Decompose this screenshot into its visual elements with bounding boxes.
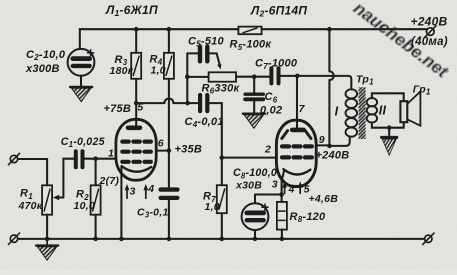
label R8 — [290, 211, 327, 224]
tube L1 grids dashed — [122, 142, 151, 162]
capacitor C3 — [161, 190, 178, 198]
wire ground stem speaker — [388, 128, 390, 137]
label pin 2 L2 — [264, 144, 271, 156]
label C6 — [260, 91, 282, 116]
wire C7 right to plate node L2 — [281, 75, 298, 77]
node rail R1/ground — [45, 237, 50, 242]
label pin 3 L2 — [272, 179, 278, 191]
node R6 left tap — [185, 75, 190, 80]
wire R8 top lead — [281, 195, 283, 202]
label C3 — [137, 206, 169, 219]
heater pin 4 arrow L2 — [282, 181, 287, 193]
wire top supply rail left section — [80, 29, 239, 49]
label R5 — [230, 39, 273, 52]
wire secondary bottom to speaker — [372, 122, 404, 128]
wire pin 6 screen lead L1 — [156, 150, 169, 152]
node rail C3 — [167, 237, 172, 242]
terminal bottom right — [423, 233, 434, 244]
node rail-R3 — [134, 27, 139, 32]
ground under C6 — [243, 114, 265, 129]
label pin 1 L1 — [108, 147, 114, 159]
label +4.6V — [309, 193, 339, 205]
resistor R7 — [217, 185, 227, 213]
label R1 — [18, 188, 43, 212]
label winding II — [379, 104, 387, 118]
label pin 4 L2 — [288, 183, 295, 195]
label pin 6 L1 — [158, 137, 164, 149]
wire R7 top lead — [221, 158, 223, 186]
wire screen L2 vertical with hop — [329, 29, 333, 146]
wire R3 feed — [135, 29, 137, 53]
label pin 2(7) L1 — [99, 175, 120, 187]
capacitor C2 electrolytic — [68, 49, 95, 76]
wire pin 9 lead — [316, 144, 329, 146]
tube L2 grids dashed — [282, 146, 312, 157]
resistor R8 — [277, 202, 287, 230]
capacitor C1 — [76, 151, 83, 167]
wire C8 bottom lead — [254, 230, 256, 239]
terminal input bottom — [8, 233, 19, 244]
potentiometer R6 — [209, 72, 236, 81]
label C8 — [233, 167, 277, 191]
watermark nauchebe.net — [350, 0, 452, 82]
wire R1 bottom lead — [46, 215, 48, 240]
tube L2 plate bar — [292, 128, 303, 133]
node rail R2 — [93, 237, 98, 242]
capacitor C5 — [200, 47, 207, 62]
wire secondary top to speaker — [372, 93, 404, 101]
tube L1 6Zh1P envelope — [116, 119, 156, 180]
label C2 value — [25, 49, 66, 75]
wire R6 left lead — [187, 76, 208, 78]
resistor R3 — [131, 53, 141, 79]
label winding I — [335, 105, 339, 119]
node anode L1 — [134, 101, 139, 106]
wire C3 to bottom rail — [168, 200, 170, 239]
node C6 tap — [252, 74, 257, 79]
label pin 9 L2 — [319, 134, 325, 146]
label R6 — [202, 82, 241, 95]
label C1 — [61, 136, 106, 149]
wire +240V to primary bottom — [329, 137, 349, 146]
label C5 — [188, 35, 225, 48]
wire R2 bottom lead — [95, 215, 97, 240]
ground under speaker — [381, 137, 397, 155]
wire screen vertical R4 to C3 — [168, 79, 170, 188]
node rail cathode L1 — [119, 237, 124, 242]
label pin 7 L2 — [299, 103, 306, 115]
heater pin 5 arrow L2 — [298, 181, 303, 193]
resistor R5 in supply rail — [238, 27, 261, 35]
wire R1 wiper to C1 — [53, 159, 74, 201]
wire R3 to anode node and tube plate pin 5 — [135, 79, 137, 128]
tube L2 beam plates — [282, 131, 311, 139]
wire pin 1 grid lead L1 — [96, 158, 117, 160]
resistor R2 — [91, 185, 101, 214]
label L2 tube type — [250, 3, 307, 18]
wire C5/R6 left vertical — [186, 53, 188, 103]
wire grid L2 pin 2 — [222, 157, 277, 159]
label +75V pin5 — [104, 102, 144, 115]
node rail C8 — [253, 237, 258, 242]
label R3 — [110, 54, 134, 77]
wire top supply rail right section — [262, 28, 427, 30]
label Tr1 — [356, 73, 374, 86]
heater pin 3 arrow L1 — [125, 184, 130, 198]
speaker Gr1 — [400, 92, 420, 126]
capacitor C8 electrolytic — [242, 203, 269, 230]
resistor R4 — [164, 53, 174, 79]
node rail R7 — [220, 237, 225, 242]
label +240V — [411, 14, 448, 28]
capacitor C7 — [271, 68, 278, 83]
wire C8 top lead — [254, 195, 256, 204]
label C7 — [255, 58, 298, 71]
wire R6 right to C6 tap and C7 — [236, 76, 269, 78]
label pin 4 L1 — [147, 183, 154, 195]
wire bottom common rail — [18, 238, 425, 240]
ground under C2 — [70, 87, 92, 102]
label pin 5 L2 — [304, 183, 310, 195]
wire plate node to transformer primary top — [297, 76, 351, 89]
label +240V node — [316, 150, 350, 162]
node grid L2 junction — [220, 155, 225, 160]
wire C6 to ground — [253, 101, 255, 113]
transformer Tr1 secondary winding II — [367, 98, 377, 123]
wire C5 right lead to R6 wiper arrow — [210, 53, 222, 69]
terminal +240V output — [425, 26, 436, 38]
node grid L1 — [93, 156, 98, 161]
terminal input top — [8, 153, 19, 164]
node secondary ground tap — [387, 125, 392, 130]
heater pin 4 arrow L1 — [143, 184, 148, 198]
node screen pin6 junction — [167, 148, 172, 153]
label 40ma — [411, 36, 448, 48]
potentiometer R1 — [42, 185, 52, 214]
wire plate lead pin 7 — [296, 76, 298, 128]
node rail-R4 — [167, 27, 172, 32]
transformer Tr1 primary winding I — [346, 89, 358, 136]
wire R8 bottom lead — [281, 230, 283, 240]
tube L2 6P14P envelope — [276, 120, 316, 186]
label +35V — [175, 144, 203, 156]
wire cathode network horizontal — [255, 193, 282, 195]
wire L1 cathode to bottom rail — [120, 168, 122, 240]
label R4 — [150, 54, 166, 77]
capacitor C6 — [245, 94, 263, 99]
tube L1 cathode — [122, 166, 152, 172]
node rail screen L2 — [327, 27, 332, 32]
wire C1 to grid node L1 — [85, 158, 96, 160]
capacitor C4 — [200, 95, 207, 111]
tube L1 plate bar — [128, 126, 140, 131]
label Gr1 — [413, 83, 431, 96]
label R7 — [203, 191, 220, 214]
node cathode L2 junction — [279, 192, 284, 197]
node plate L2 — [295, 74, 300, 79]
wire C6 top lead — [253, 77, 255, 93]
wire C5 left lead — [187, 52, 198, 54]
node anode to C5/R6 tap — [185, 101, 190, 106]
ground below rail — [36, 239, 58, 260]
wire C4 to grid junction L2 — [209, 103, 221, 158]
tube L2 cathode — [283, 169, 310, 174]
wire L2 cathode pin 3 — [282, 171, 284, 195]
wire input to R1 — [18, 159, 47, 185]
label L1 tube type — [105, 3, 158, 18]
label C4 — [185, 116, 224, 129]
transformer Tr1 core — [359, 87, 366, 139]
wire R4 feed — [168, 29, 170, 53]
label R2 — [74, 189, 95, 213]
node rail R8 — [280, 237, 285, 242]
wire anode horizontal with hop over screen line — [136, 99, 198, 104]
node pin9 junction — [327, 144, 332, 149]
wire R7 to bottom rail — [221, 213, 223, 239]
wire R2 top lead — [95, 159, 97, 186]
wire C2 to ground — [80, 76, 82, 87]
label pin 3 L1 — [130, 185, 136, 197]
